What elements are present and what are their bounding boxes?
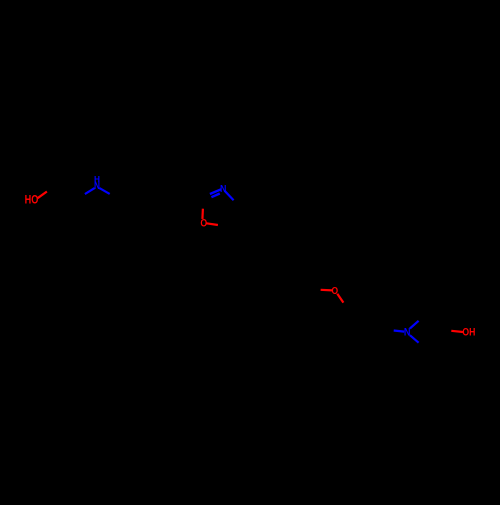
bond N3-C4 (blue half) bbox=[225, 191, 234, 201]
bond C2-O1 (red half, vertical) bbox=[201, 209, 204, 219]
svg-text:N: N bbox=[94, 180, 100, 192]
bond N-C3 amine (blue half, right) bbox=[99, 188, 109, 194]
svg-text:O: O bbox=[200, 218, 207, 230]
bond Caryl-O ether (red half, horizontal) bbox=[321, 289, 333, 292]
bond C2-N amine (blue half, left) bbox=[85, 188, 95, 194]
bond HO-C1 (red half, O side) bbox=[38, 192, 47, 199]
bond O1-C5 (red half, horizontal) bbox=[207, 223, 218, 225]
bond C3'-OH (red half, horizontal) bbox=[451, 331, 463, 332]
bond C2=N3 inner line (blue half) bbox=[211, 194, 219, 198]
bond CH2-N azetidine (blue half, horizontal) bbox=[394, 331, 405, 332]
svg-text:HO: HO bbox=[25, 193, 39, 206]
svg-text:OH: OH bbox=[462, 327, 475, 339]
bond O-CH2 ether (red half, down-right) bbox=[337, 294, 343, 303]
svg-text:N: N bbox=[404, 327, 411, 339]
bond N-C4' azetidine (blue half, down-right) bbox=[410, 335, 419, 343]
bond C2=N3 outer line (blue half) bbox=[210, 189, 221, 194]
bond N-C2' azetidine (blue half, up-right) bbox=[410, 321, 419, 329]
